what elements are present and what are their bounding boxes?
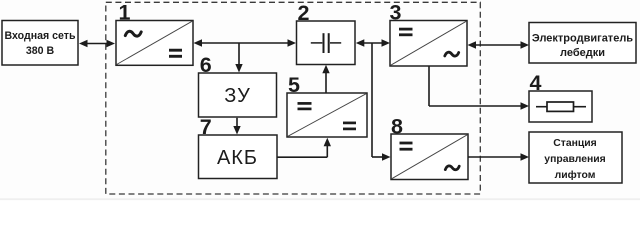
svg-text:Входная сеть: Входная сеть [5,30,76,42]
box: battery АКБ (7) [199,135,278,179]
converter U1 (AC/DC rectifier ~/=) [116,21,193,66]
dashed enclosure (converter unit boundary) [106,2,481,194]
box: charger ЗУ (6) [199,73,277,117]
svg-text:380 В: 380 В [26,45,55,57]
svg-text:Станция: Станция [553,138,597,149]
wire: converter 5 up to filter 2 [322,65,329,93]
wire: inverter 3 down and right to brake resistor 4 [429,67,529,110]
wire: filter 2 to inverter 3 (bidirectional), with tap down to inverter 8 [356,39,391,160]
scan artifact: faint bottom streak [0,199,640,200]
box: winch electric motor [529,23,636,64]
wire: battery 7 to converter 5 [278,138,332,157]
inverter U8 (DC/AC =/~) [391,134,468,180]
svg-text:лифтом: лифтом [555,169,596,181]
inverter U3 (DC/AC =/~) [390,21,467,67]
svg-text:лебедки: лебедки [560,47,605,59]
wire: inverter 3 to motor (bidirectional) [468,41,530,48]
filter C2 (capacitor block) [297,21,356,65]
wire: input network to rectifier 1 (bidirectional) [79,40,115,47]
svg-text:ЗУ: ЗУ [224,85,251,107]
box: brake resistor R4 [529,91,592,122]
svg-text:управления: управления [544,154,605,165]
svg-text:АКБ: АКБ [217,147,258,169]
box: input network 380V [2,21,78,66]
svg-text:Электродвигатель: Электродвигатель [532,33,633,45]
converter U5 (DC/DC =/=) [287,93,367,137]
wire: inverter 8 to lift control station [468,153,529,160]
wire: charger 6 to battery 7 [233,118,240,135]
wire: rectifier 1 to filter 2 (bidirectional), with tap to charger 6 [194,39,297,72]
box: lift control station [529,132,622,183]
